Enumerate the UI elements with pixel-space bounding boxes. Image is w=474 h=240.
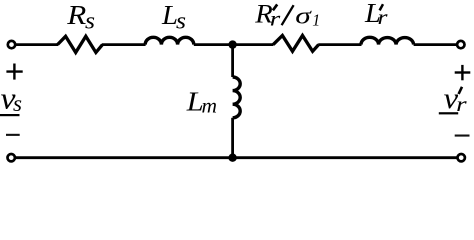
wire L'_r to terminal [414,43,458,46]
wire middle vertical upper [231,45,234,77]
inductor L_m [233,77,241,118]
label v'_r [444,82,468,116]
svg-text:R: R [66,0,87,30]
label L_m [186,87,217,118]
svg-text:m: m [202,94,218,118]
resistor R'_r/sigma1 [273,36,318,52]
minus right [455,135,470,137]
wire top-left [16,43,58,46]
terminal top-left [8,41,15,48]
inductor L_s [145,37,194,44]
svg-text:σ: σ [295,4,312,30]
svg-text:r: r [270,7,282,31]
wire L_s to R'_r [194,43,274,46]
node junction top [228,40,236,48]
node junction bottom [228,154,236,162]
minus left [6,134,20,136]
svg-text:s: s [176,9,186,35]
label R'_r/sigma_1 [254,0,320,31]
label v_s [1,80,23,116]
underline v'_r [439,112,458,114]
label L'_r [364,0,389,29]
svg-text:r: r [378,5,389,29]
plus right [455,65,471,80]
resistor R_s [58,36,103,52]
terminal bottom-left [8,154,15,161]
label R_s [66,0,95,34]
underline v_s [0,114,20,116]
plus left [6,64,22,80]
wire R'_r to L'_r [318,43,361,46]
terminal top-right [457,41,464,48]
label L_s [161,0,186,35]
wire bottom rail [15,156,457,159]
wire R_s to L_s [102,43,146,46]
wire middle vertical lower [231,118,234,158]
svg-text:s: s [13,91,22,116]
terminal bottom-right [458,154,465,161]
inductor L'_r [361,37,414,44]
svg-text:1: 1 [312,11,320,30]
svg-text:s: s [85,8,95,34]
